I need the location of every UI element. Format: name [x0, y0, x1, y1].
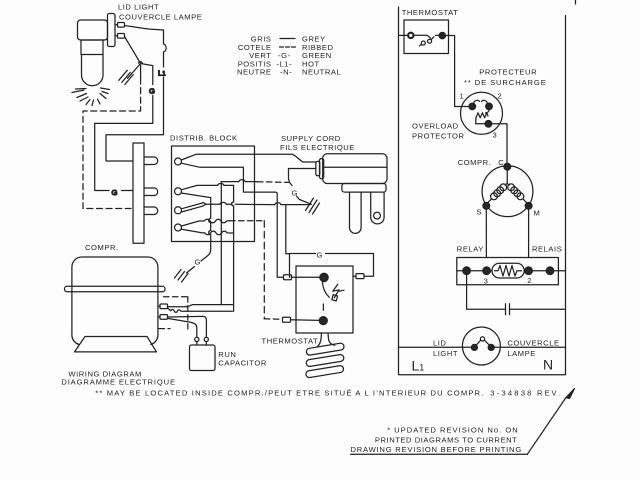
svg-text:RELAY: RELAY	[457, 244, 484, 253]
svg-text:THERMOSTAT: THERMOSTAT	[262, 337, 319, 346]
svg-text:COMPR.: COMPR.	[85, 243, 119, 252]
svg-text:G: G	[195, 258, 201, 267]
svg-text:SUPPLY CORD: SUPPLY CORD	[281, 134, 341, 143]
svg-text:REV.: REV.	[537, 389, 562, 398]
svg-text:LIGHT: LIGHT	[433, 349, 458, 358]
svg-text:-N-: -N-	[280, 68, 292, 77]
svg-text:FILS ELECTRIQUE: FILS ELECTRIQUE	[280, 143, 355, 152]
svg-text:OVERLOAD: OVERLOAD	[412, 121, 459, 130]
svg-text:NEUTRAL: NEUTRAL	[302, 68, 341, 77]
svg-text:PROTECTOR: PROTECTOR	[412, 132, 465, 141]
svg-text:** MAY BE LOCATED INSIDE COMPR: ** MAY BE LOCATED INSIDE COMPR./PEUT ETR…	[95, 389, 484, 398]
svg-text:COUVERCLE LAMPE: COUVERCLE LAMPE	[119, 13, 202, 22]
svg-text:COUVERCLE: COUVERCLE	[507, 338, 559, 347]
svg-text:COMPR.: COMPR.	[458, 158, 492, 167]
svg-text:NEUTRE: NEUTRE	[237, 68, 272, 77]
svg-text:LID: LID	[433, 338, 446, 347]
svg-text:PROTECTEUR: PROTECTEUR	[479, 68, 537, 77]
svg-text:3-34838: 3-34838	[490, 389, 533, 398]
svg-text:3: 3	[493, 131, 498, 140]
svg-text:DIAGRAMME ELECTRIQUE: DIAGRAMME ELECTRIQUE	[61, 377, 175, 386]
svg-text:THERMOSTAT: THERMOSTAT	[402, 8, 459, 17]
svg-text:PRINTED DIAGRAMS TO CURRENT: PRINTED DIAGRAMS TO CURRENT	[375, 436, 517, 445]
svg-text:DRAWING REVISION BEFORE PRINTI: DRAWING REVISION BEFORE PRINTING	[351, 445, 523, 454]
svg-text:1: 1	[460, 92, 465, 101]
svg-text:2: 2	[498, 92, 503, 101]
svg-text:G: G	[317, 250, 323, 259]
svg-text:LID LIGHT: LID LIGHT	[118, 3, 159, 12]
svg-text:G: G	[112, 188, 118, 197]
svg-text:DISTRIB. BLOCK: DISTRIB. BLOCK	[170, 134, 238, 143]
svg-text:LAMPE: LAMPE	[507, 349, 536, 358]
svg-text:3: 3	[484, 277, 489, 286]
svg-text:* UPDATED REVISION No. ON: * UPDATED REVISION No. ON	[387, 426, 519, 435]
svg-text:G: G	[149, 87, 155, 96]
svg-text:M: M	[534, 209, 541, 218]
svg-text:N: N	[543, 357, 553, 373]
svg-text:S: S	[477, 208, 483, 217]
svg-text:** DE SURCHARGE: ** DE SURCHARGE	[464, 78, 547, 87]
svg-text:RELAIS: RELAIS	[532, 244, 562, 253]
svg-text:G: G	[292, 188, 298, 197]
svg-text:2: 2	[527, 276, 532, 285]
svg-text:CAPACITOR: CAPACITOR	[218, 359, 267, 368]
